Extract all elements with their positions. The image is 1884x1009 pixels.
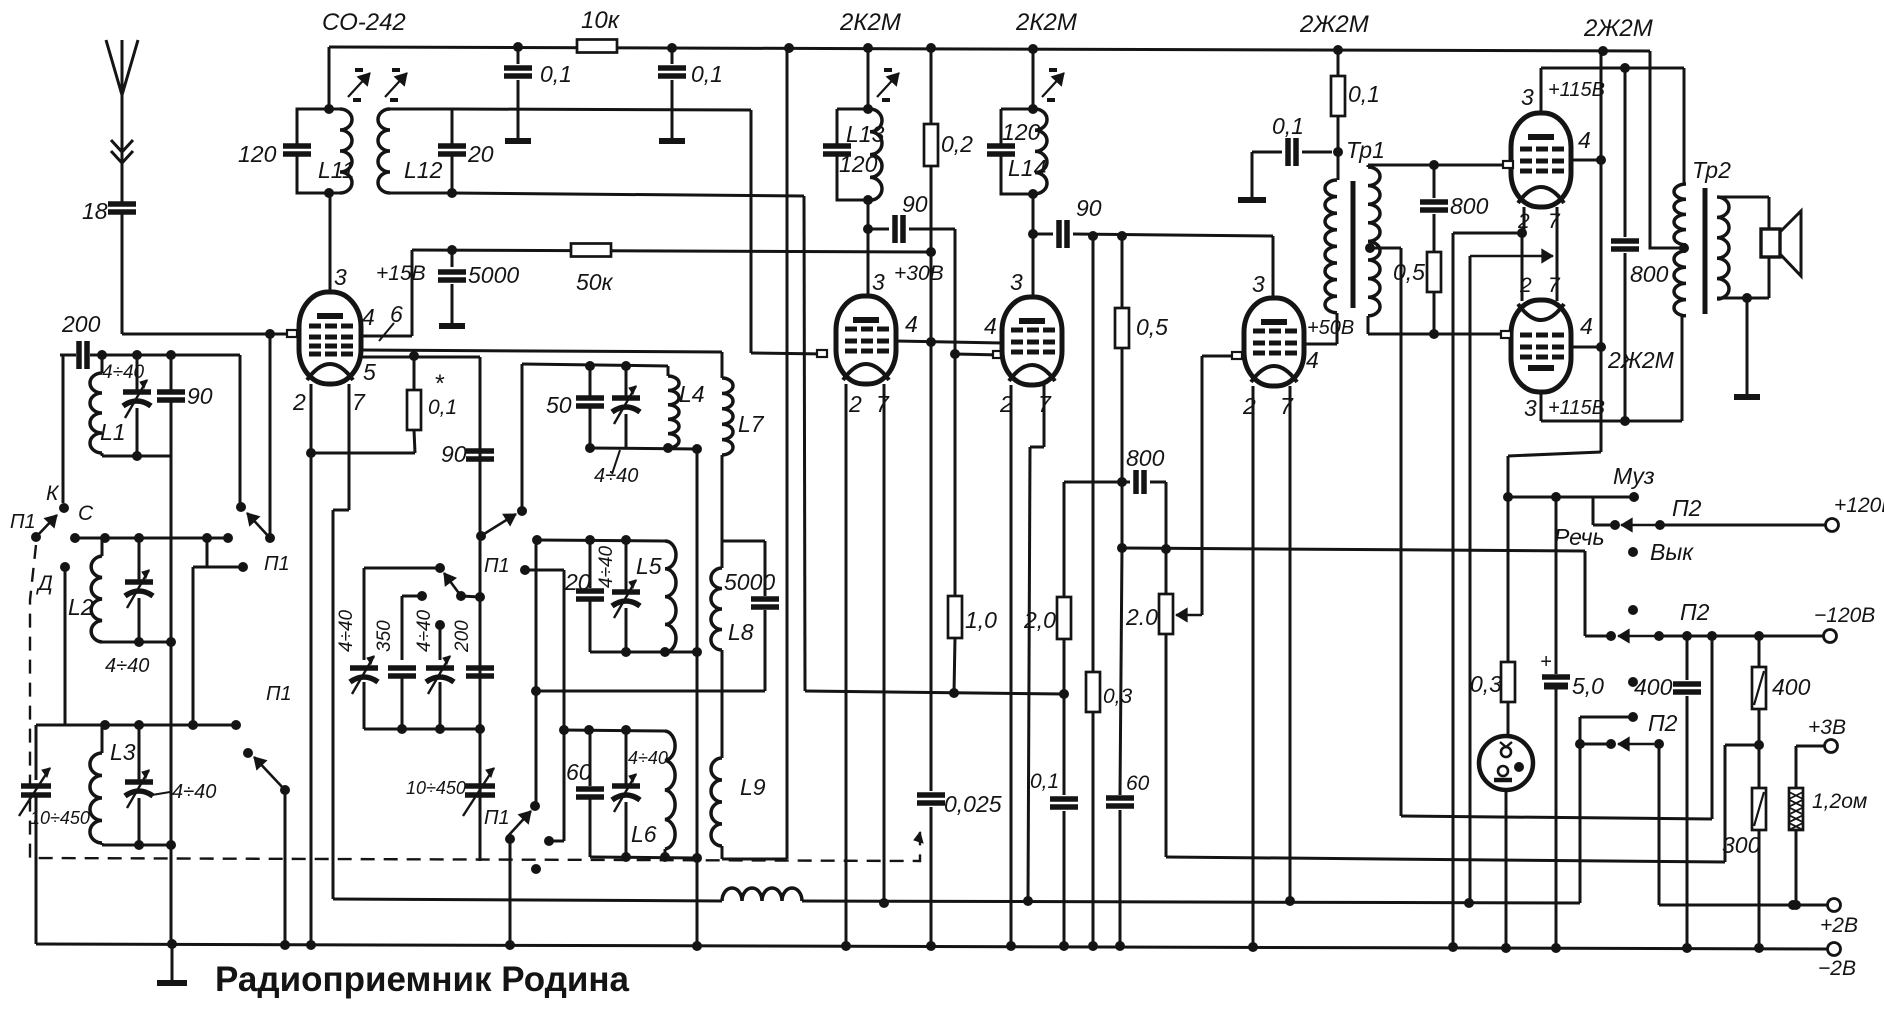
resistor 400 var	[1752, 636, 1811, 750]
label Tr1	[1346, 137, 1385, 163]
capacitor 5000 L8	[751, 541, 779, 691]
wire tube5 pins bottom	[1517, 207, 1561, 301]
capacitor trimmer 4:40 L1	[102, 355, 151, 456]
node grid stub tube5	[1503, 161, 1513, 168]
svg-text:+30В: +30В	[894, 262, 944, 285]
capacitor trimmer 4:40 L4	[594, 361, 640, 487]
svg-text:2Ж2М: 2Ж2М	[1299, 11, 1369, 38]
node Tr1 center tap	[1365, 243, 1401, 816]
svg-text:2: 2	[1519, 274, 1532, 297]
svg-text:800: 800	[1126, 445, 1165, 471]
inductor L9	[711, 691, 787, 859]
speaker	[1761, 211, 1801, 276]
wire band line C	[70, 533, 233, 543]
wire dashed gang link	[30, 545, 923, 861]
wire D line	[64, 567, 67, 725]
node tuning arrow L12	[385, 70, 407, 100]
svg-text:4÷40: 4÷40	[596, 545, 617, 588]
svg-text:2Ж2М: 2Ж2М	[1607, 347, 1675, 373]
capacitor 5,0 electrolytic	[1540, 497, 1604, 948]
capacitor 0,1 second	[658, 48, 723, 141]
svg-text:П1: П1	[266, 683, 292, 705]
svg-text:П1: П1	[264, 553, 290, 575]
capacitor variable 10:450 second	[406, 729, 495, 861]
inductor L8	[531, 541, 775, 696]
label 2Zh2M output	[1583, 15, 1653, 42]
svg-text:3: 3	[1010, 269, 1023, 295]
wire det line corner	[1584, 551, 1587, 636]
transformer Tr2 secondary	[1717, 197, 1769, 303]
svg-text:3: 3	[1252, 271, 1265, 297]
wire to tube4 plate	[1088, 231, 1273, 298]
node grid stub tube2	[817, 350, 827, 357]
resistor 0,3 det	[1086, 236, 1133, 946]
wire padder top	[364, 563, 445, 660]
capacitor 0,1 coupling	[1238, 113, 1343, 200]
wire tube5 pin4	[1571, 51, 1606, 450]
svg-text:2: 2	[1517, 210, 1530, 233]
svg-text:20: 20	[467, 141, 494, 167]
capacitor 0,025	[917, 342, 1002, 946]
svg-text:П2: П2	[1672, 495, 1702, 521]
wire tube6 pin4	[1571, 313, 1606, 352]
wire tube5 pin3	[1521, 63, 1684, 184]
node tuning arrow L13	[877, 70, 899, 100]
wire bias line	[1401, 636, 1712, 819]
wire L1 common down	[170, 456, 173, 945]
inductor L14	[987, 104, 1047, 199]
wire L6 bottom	[590, 852, 702, 863]
wire +2V line	[1659, 744, 1858, 937]
wire L4 bottom	[590, 443, 702, 454]
svg-text:L9: L9	[740, 774, 766, 800]
svg-text:4÷40: 4÷40	[102, 362, 145, 383]
node switch P1 third	[243, 683, 292, 795]
label 2K2M first	[839, 9, 1077, 36]
svg-text:Д: Д	[36, 572, 53, 595]
node grid stub tube6	[1501, 331, 1511, 338]
node Vyk dot	[1628, 539, 1694, 565]
node padder contact2	[402, 591, 427, 660]
tube U4 2Zh2M	[1244, 298, 1304, 386]
wire L1 select	[239, 355, 242, 503]
svg-text:5000: 5000	[724, 569, 775, 595]
svg-text:2К2М: 2К2М	[1015, 9, 1077, 36]
wire tube1 pins bottom	[292, 384, 366, 945]
node spare pole dots	[1628, 605, 1638, 687]
wire L12 top to tube2 grid	[452, 109, 826, 354]
svg-text:П2: П2	[1680, 599, 1710, 625]
tube U1 CO-242	[299, 292, 361, 384]
inductor L13	[823, 104, 885, 205]
tube U2 2K2M	[836, 296, 896, 384]
node switch P2 row3	[1575, 710, 1678, 751]
wire tube6 pin3	[1524, 316, 1682, 426]
label 2K2M second	[1299, 11, 1369, 38]
svg-text:2К2М: 2К2М	[839, 9, 901, 36]
resistor 2,0 pot	[1125, 544, 1173, 857]
capacitor variable 10:450 first	[19, 725, 90, 944]
svg-text:4: 4	[1580, 313, 1593, 339]
svg-text:90: 90	[902, 191, 928, 217]
svg-text:120: 120	[839, 151, 878, 177]
antenna	[106, 40, 138, 204]
svg-text:2,0: 2,0	[1023, 607, 1056, 633]
wire L4 top line	[522, 364, 668, 366]
svg-text:10÷450: 10÷450	[30, 808, 90, 828]
capacitor 400	[1634, 636, 1701, 948]
svg-text:+115В: +115В	[1548, 397, 1605, 419]
capacitor trimmer 4:40 L2	[105, 538, 153, 677]
wire L5 bottom	[590, 647, 702, 657]
node tuning arrow L11	[348, 70, 370, 100]
resistor 0,3 mic	[1470, 662, 1515, 736]
svg-text:4÷40: 4÷40	[172, 781, 216, 803]
svg-text:7: 7	[1038, 391, 1052, 417]
node switch P1 wiper	[10, 355, 69, 542]
label C	[78, 502, 94, 525]
node switch P2 row1	[1593, 495, 1702, 532]
wire cathode left	[1453, 233, 1522, 947]
svg-text:200: 200	[452, 620, 473, 653]
svg-text:800: 800	[1450, 193, 1489, 219]
label 3 tube4	[1252, 271, 1265, 297]
svg-text:5000: 5000	[468, 262, 519, 288]
node switch P2 row2	[1585, 599, 1710, 643]
svg-text:60: 60	[1126, 772, 1150, 795]
svg-text:2: 2	[292, 389, 306, 415]
inductor L12	[378, 109, 494, 198]
label Tr2	[1692, 157, 1731, 183]
inductor L3	[90, 725, 176, 850]
capacitor 90 tube1 cathode	[441, 357, 494, 533]
node switch P1 contact K	[46, 482, 246, 512]
ground chassis	[157, 944, 187, 983]
svg-text:П1: П1	[10, 511, 36, 533]
svg-text:К: К	[46, 482, 60, 505]
label +15V	[376, 262, 426, 285]
capacitor 0,1 det	[1030, 694, 1078, 946]
resistor 0,5 IF	[1115, 236, 1168, 548]
svg-text:4÷40: 4÷40	[594, 465, 638, 487]
capacitor 5000	[438, 250, 519, 326]
node switch P1 padder blade	[444, 573, 485, 602]
svg-text:0,1: 0,1	[1030, 770, 1059, 793]
svg-text:0,2: 0,2	[941, 131, 973, 157]
inductor L7	[722, 352, 765, 541]
inductor L2	[68, 538, 176, 647]
label tube6 pins top	[1519, 274, 1561, 297]
svg-text:−120В: −120В	[1814, 604, 1875, 627]
svg-text:0,1: 0,1	[1348, 81, 1380, 107]
node pot wiper arrow	[1176, 356, 1202, 622]
resistor 1,2om	[1789, 788, 1867, 905]
svg-text:4÷40: 4÷40	[628, 748, 668, 768]
svg-text:L1: L1	[100, 419, 126, 445]
svg-text:2: 2	[999, 391, 1013, 417]
svg-text:18: 18	[82, 198, 108, 224]
capacitor 350	[374, 620, 416, 729]
node switch P1 osc contact	[517, 506, 527, 516]
svg-text:2: 2	[1242, 393, 1256, 419]
svg-text:400: 400	[1634, 674, 1673, 700]
node contact D	[36, 562, 70, 595]
svg-text:+120В: +120В	[1834, 494, 1884, 517]
wire padder bottom	[364, 724, 485, 734]
svg-text:4÷40: 4÷40	[336, 609, 357, 652]
capacitor 800 det	[1064, 445, 1166, 594]
svg-text:С: С	[78, 502, 94, 525]
svg-text:2: 2	[848, 391, 862, 417]
svg-text:2.0: 2.0	[1125, 604, 1158, 630]
node Tr2 core	[1703, 188, 1708, 314]
capacitor 90 IF2	[1028, 195, 1273, 248]
svg-text:4÷40: 4÷40	[105, 655, 149, 677]
wire 90 to tube3 grid	[950, 229, 1002, 359]
svg-text:3: 3	[1521, 84, 1534, 110]
wire to +120V	[1660, 494, 1884, 532]
wire L4 bottom down	[696, 449, 699, 946]
wire +15V 50k line	[412, 245, 936, 257]
svg-text:10÷450: 10÷450	[406, 778, 466, 798]
svg-text:120: 120	[1002, 119, 1041, 145]
svg-text:50: 50	[546, 392, 572, 418]
wire tube1 pin6 line	[361, 350, 722, 352]
wire P1 bottom down	[509, 839, 512, 945]
wire to -120V	[1659, 604, 1875, 643]
svg-text:20: 20	[564, 569, 591, 595]
svg-text:Муз: Муз	[1613, 463, 1655, 489]
svg-text:0,1: 0,1	[1272, 113, 1304, 139]
svg-text:Тр1: Тр1	[1346, 137, 1385, 163]
capacitor 0,1 first	[504, 47, 572, 141]
svg-text:3: 3	[872, 269, 885, 295]
label pin6 slash	[379, 301, 403, 341]
wire connector down	[1505, 790, 1508, 947]
svg-text:+15В: +15В	[376, 262, 426, 285]
svg-text:Вык: Вык	[1650, 539, 1694, 565]
svg-text:90: 90	[1076, 195, 1102, 221]
node Tr1 core	[1351, 181, 1356, 308]
wire heater line choke	[333, 888, 1580, 908]
svg-text:L12: L12	[404, 157, 443, 183]
svg-text:L14: L14	[1008, 155, 1046, 181]
svg-text:300: 300	[1722, 832, 1761, 858]
label 4 tube3	[984, 313, 997, 339]
capacitor trimmer 4:40 padder1	[336, 609, 378, 729]
svg-text:0,1: 0,1	[540, 61, 572, 87]
wire tube2 pin4 line	[896, 311, 1002, 347]
svg-text:0,3: 0,3	[1470, 671, 1502, 697]
node switch P1 blade K	[247, 334, 275, 543]
capacitor trimmer 4:40 L5	[596, 540, 640, 652]
wire tube1 pin4 screen	[361, 250, 412, 336]
capacitor trimmer 4:40 L6	[612, 730, 668, 857]
inductor L5	[636, 541, 676, 652]
wire heater to P2	[1579, 744, 1582, 903]
svg-text:0,3: 0,3	[1103, 685, 1133, 708]
svg-text:Тр2: Тр2	[1692, 157, 1731, 183]
svg-text:120: 120	[238, 141, 277, 167]
wire tube3 pin3	[1010, 49, 1033, 297]
node Muz line	[1503, 463, 1655, 502]
resistor 0,5 grid upper	[1393, 252, 1441, 334]
node bus junction dots	[513, 42, 1608, 56]
svg-text:4: 4	[362, 304, 375, 330]
svg-text:L6: L6	[631, 821, 657, 847]
svg-text:2Ж2М: 2Ж2М	[1583, 15, 1653, 42]
wire L5 top line	[532, 535, 665, 545]
svg-text:L8: L8	[728, 619, 754, 645]
wire bracket switch	[193, 538, 248, 725]
transformer Tr2 primary	[1674, 184, 1689, 316]
wire tube4 pin4	[1304, 317, 1354, 373]
label title	[215, 960, 630, 999]
capacitor 200	[60, 311, 102, 369]
node contact L6 wire	[520, 565, 564, 841]
svg-text:П2: П2	[1648, 710, 1678, 736]
wire tube1 pin3	[330, 193, 347, 294]
wire CO-242 to L11	[328, 47, 331, 109]
svg-text:Радиоприемник Родина: Радиоприемник Родина	[215, 960, 630, 999]
inductor L1	[90, 355, 171, 461]
wire Muz T down	[1592, 497, 1595, 525]
inductor L4	[668, 366, 705, 448]
svg-text:60: 60	[566, 759, 592, 785]
svg-text:+115В: +115В	[1548, 79, 1605, 101]
svg-text:400: 400	[1772, 674, 1811, 700]
svg-text:*: *	[434, 370, 445, 398]
svg-text:L3: L3	[110, 739, 136, 765]
label +30V	[894, 262, 944, 285]
wire L12 bottom branch	[803, 195, 806, 198]
svg-text:0,5: 0,5	[1136, 314, 1168, 340]
svg-text:1,2ом: 1,2ом	[1812, 790, 1867, 813]
wire L4 select	[521, 364, 524, 507]
capacitor 18	[82, 198, 136, 334]
node grid stub tube3	[993, 351, 1003, 358]
wire det to P2	[1122, 548, 1585, 551]
wire pin4 to Rech	[1508, 450, 1601, 662]
tube U3 2K2M	[1002, 297, 1062, 385]
wire +3V node	[1725, 745, 1759, 862]
wire tube1 pin5 down	[479, 357, 482, 861]
tube U5 2Zh2M	[1511, 113, 1571, 207]
svg-text:Речь: Речь	[1554, 524, 1605, 550]
svg-text:90: 90	[441, 441, 467, 467]
wire top B+ bus	[329, 47, 1684, 248]
svg-text:7: 7	[876, 391, 890, 417]
svg-text:+: +	[1540, 651, 1552, 673]
wire speaker ground	[1734, 298, 1760, 397]
capacitor 800 anode	[1611, 68, 1669, 421]
wire tube4 pins bottom	[1242, 386, 1294, 947]
svg-text:L2: L2	[68, 594, 94, 620]
svg-text:4: 4	[1578, 127, 1591, 153]
svg-text:3: 3	[334, 264, 347, 290]
svg-text:200: 200	[61, 311, 101, 337]
svg-text:7: 7	[1548, 274, 1561, 297]
svg-text:3: 3	[1524, 395, 1537, 421]
wire Tr1 sec bottom	[1368, 316, 1504, 339]
capacitor trimmer 4:40 padder2	[414, 609, 454, 729]
wire L12 bottom AVC line	[452, 193, 1069, 699]
label Rech	[1554, 524, 1605, 550]
capacitor 90 IF1	[863, 191, 955, 243]
node switch P1 osc blade	[476, 514, 516, 577]
svg-text:L7: L7	[738, 411, 765, 437]
svg-text:4: 4	[984, 313, 997, 339]
wire pot line right	[1166, 857, 1725, 862]
resistor 0,2	[924, 48, 973, 342]
resistor 50k	[571, 244, 614, 296]
svg-text:7: 7	[352, 389, 366, 415]
node switch P1 contact L5	[535, 540, 538, 806]
wire ground bus	[36, 799, 1856, 980]
wire tube3 pins bottom	[999, 385, 1052, 946]
wire antenna to tube1	[122, 329, 296, 339]
resistor 1,0	[948, 354, 997, 693]
svg-text:4÷40: 4÷40	[414, 609, 435, 652]
node grid stub tube4	[1232, 352, 1242, 359]
svg-text:6: 6	[390, 301, 403, 327]
svg-text:L4: L4	[679, 381, 705, 407]
node grid stub tube1	[287, 330, 297, 337]
wire tube2 pins bottom	[846, 384, 890, 946]
svg-text:0,1: 0,1	[428, 396, 457, 419]
svg-text:90: 90	[187, 383, 213, 409]
transformer Tr1 primary	[1325, 180, 1337, 344]
wire bus to L9	[786, 48, 789, 859]
tube U6 2Zh2M	[1511, 300, 1571, 392]
capacitor 60 L6	[566, 730, 604, 857]
svg-text:7: 7	[1548, 210, 1561, 233]
wire P1 third down	[284, 790, 287, 945]
resistor 2,0	[1023, 482, 1071, 694]
svg-text:0,1: 0,1	[691, 61, 723, 87]
svg-text:5: 5	[363, 359, 376, 385]
wire L1 top	[97, 350, 240, 360]
svg-text:L13: L13	[846, 121, 885, 147]
wire tube2 pin3	[868, 48, 885, 296]
wire L3 top line	[36, 720, 241, 730]
svg-text:+50В: +50В	[1307, 317, 1354, 339]
capacitor 90 L1	[157, 355, 213, 456]
node heater tap arrow	[1470, 249, 1553, 903]
capacitor 60 det	[1106, 543, 1150, 946]
resistor 0,1 starred	[306, 351, 457, 458]
svg-text:0,5: 0,5	[1393, 259, 1425, 285]
transformer Tr1 secondary	[1368, 167, 1380, 316]
resistor 0,1 coupling	[1331, 50, 1380, 180]
capacitor 50	[546, 361, 604, 453]
svg-text:−2В: −2В	[1818, 957, 1856, 980]
svg-text:П1: П1	[484, 555, 510, 577]
resistor 300	[1722, 745, 1766, 948]
wire tube1 pin5 line	[361, 357, 480, 385]
svg-text:П1: П1	[484, 807, 510, 829]
svg-text:4: 4	[1306, 347, 1319, 373]
svg-text:+3В: +3В	[1808, 716, 1846, 739]
svg-text:0,025: 0,025	[944, 791, 1002, 817]
label CO-242	[322, 9, 406, 36]
wire Tr1 sec top	[1368, 160, 1512, 170]
node switch P1 bottom	[484, 801, 564, 874]
svg-text:4: 4	[905, 311, 918, 337]
connector X1 microphone	[1479, 736, 1533, 790]
inductor L6	[631, 731, 675, 857]
wire L6 top line	[559, 725, 665, 735]
